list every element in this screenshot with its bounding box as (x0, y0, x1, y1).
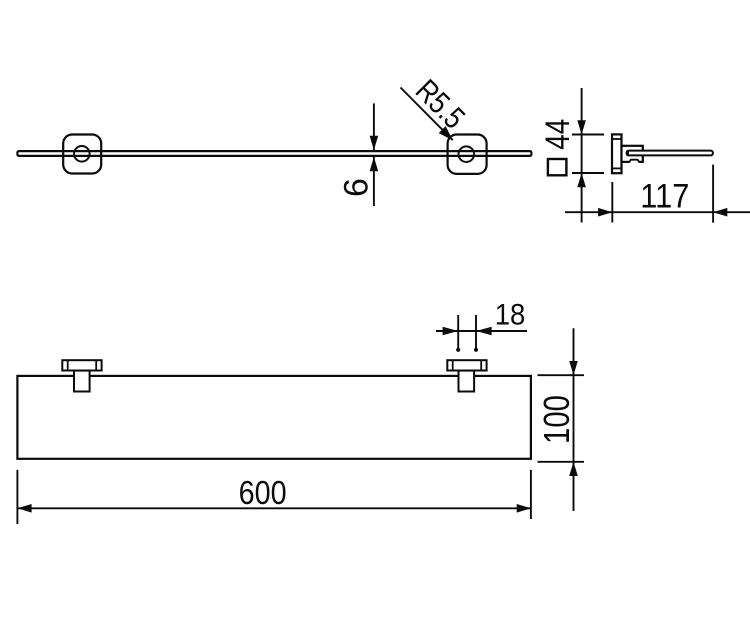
dimension 18 (bracket stem width) (436, 298, 527, 352)
bracket right stem (plan) (459, 371, 475, 392)
svg-text:600: 600 (239, 474, 287, 511)
dimension 117 (side view depth) (565, 165, 750, 223)
clamp notch (side view) (629, 160, 639, 164)
svg-text:6: 6 (337, 178, 375, 197)
bracket right (front view) (448, 135, 487, 174)
screw hole right (459, 146, 475, 162)
label square 44 (539, 119, 577, 176)
leader R5.5 (401, 73, 472, 141)
shelf plan rectangle (17, 376, 531, 459)
svg-text:18: 18 (495, 298, 526, 331)
glass shelf front view (17, 151, 531, 156)
svg-text:100: 100 (536, 395, 577, 444)
glass shelf (side view) (627, 150, 713, 156)
screw hole left (74, 146, 90, 162)
bracket left (front view) (63, 135, 101, 174)
svg-text:117: 117 (640, 178, 689, 216)
dimension 100 (plan depth) (536, 328, 584, 511)
dimension 44 (side view height) (572, 88, 604, 223)
wall plate (side view) (612, 134, 622, 173)
bracket left stem (plan) (74, 371, 90, 392)
bracket left bar (plan) (62, 360, 101, 370)
bracket arm (side view) (622, 146, 643, 162)
dimension 600 (plan width) (17, 470, 531, 524)
svg-text:44: 44 (539, 119, 577, 150)
bracket right bar (plan) (447, 360, 486, 370)
dimension 6 (glass thickness) (337, 103, 378, 206)
